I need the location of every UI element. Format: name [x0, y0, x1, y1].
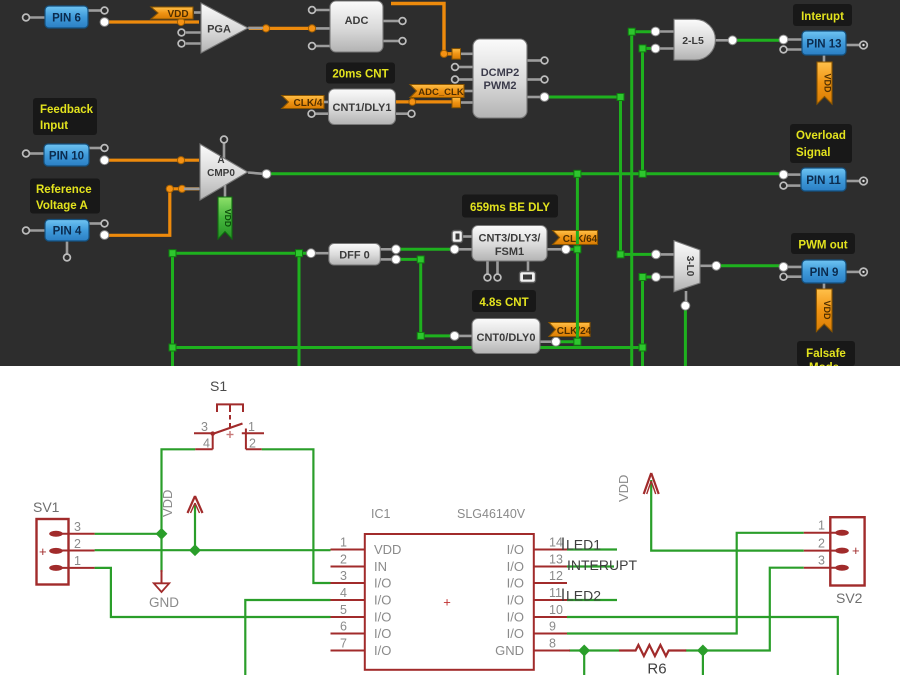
- svg-text:2: 2: [249, 437, 256, 451]
- wire orange PIN4 to CMP0 input2: [105, 185, 200, 235]
- wire bottom net to IC1 pin4: [245, 600, 330, 675]
- svg-text:1: 1: [818, 519, 825, 533]
- wire 3-L0 bottom port vertical: [684, 308, 687, 366]
- wire row y=347.5: [173, 346, 643, 349]
- counter block CNT0/DLY0: [450, 319, 560, 354]
- wire SV1 pin1 to IC1 pin5: [95, 568, 331, 617]
- svg-text:GND: GND: [495, 643, 524, 658]
- PIN 6: [23, 6, 109, 28]
- svg-text:LED2: LED2: [566, 588, 601, 604]
- svg-text:4.8s CNT: 4.8s CNT: [479, 297, 528, 309]
- svg-text:PIN 6: PIN 6: [52, 13, 81, 25]
- label Interupt: [793, 4, 852, 26]
- svg-text:20ms CNT: 20ms CNT: [332, 69, 388, 81]
- svg-text:SLG46140V: SLG46140V: [457, 507, 526, 521]
- svg-text:ADC_CLK: ADC_CLK: [418, 87, 464, 98]
- junction GND/SV1 pin3: [156, 528, 168, 540]
- op-amp PGA: [178, 3, 263, 53]
- svg-text:1: 1: [248, 420, 255, 434]
- svg-text:659ms BE DLY: 659ms BE DLY: [470, 202, 550, 214]
- wire orange PIN10 to CMP0 input1: [105, 157, 200, 164]
- svg-text:IN: IN: [374, 559, 387, 574]
- svg-text:VDD: VDD: [223, 209, 233, 227]
- svg-text:I/O: I/O: [507, 610, 524, 625]
- svg-text:SV2: SV2: [836, 590, 863, 606]
- svg-text:13: 13: [549, 553, 563, 567]
- svg-text:INTERUPT: INTERUPT: [567, 557, 637, 573]
- wire 2-L5 output to PIN 13: [734, 39, 783, 42]
- svg-text:CNT3/DLY3/: CNT3/DLY3/: [479, 233, 541, 245]
- wire CNT3 FSM1 net vertical x=577.4: [576, 174, 579, 342]
- svg-text:CMP0: CMP0: [207, 168, 235, 179]
- power flag VDD under PIN 13: [817, 62, 833, 104]
- svg-text:PWM2: PWM2: [484, 80, 517, 92]
- net label LED1: [563, 537, 601, 553]
- svg-text:6: 6: [340, 620, 347, 634]
- svg-text:+: +: [443, 595, 451, 610]
- svg-text:1: 1: [340, 536, 347, 550]
- svg-text:+: +: [39, 544, 47, 559]
- counter block CNT1/DLY1: [308, 89, 415, 125]
- svg-text:I/O: I/O: [374, 576, 391, 591]
- svg-text:PGA: PGA: [207, 24, 231, 36]
- svg-text:11: 11: [549, 586, 562, 600]
- svg-text:S1: S1: [210, 378, 227, 394]
- svg-text:I/O: I/O: [507, 626, 524, 641]
- wire VDD net SV1 pin2 to IC1 pin1: [95, 505, 331, 550]
- switch S1: [194, 404, 264, 449]
- ground symbol GND: [149, 570, 179, 610]
- svg-text:LED1: LED1: [566, 537, 601, 553]
- label PWM out: [791, 233, 855, 254]
- logic gate 2-L5: [651, 19, 737, 60]
- wire orange ADC clock elbow to DCMP2: [391, 4, 453, 58]
- svg-text:9: 9: [549, 620, 556, 634]
- svg-text:DFF 0: DFF 0: [339, 250, 370, 262]
- svg-text:Mode: Mode: [809, 362, 839, 374]
- svg-text:2: 2: [74, 537, 81, 551]
- svg-text:CNT0/DLY0: CNT0/DLY0: [477, 332, 536, 344]
- wire CNT3 output to junction: [568, 248, 577, 251]
- svg-text:DCMP2: DCMP2: [481, 67, 520, 79]
- svg-text:VDD: VDD: [822, 300, 832, 320]
- svg-text:PIN 10: PIN 10: [49, 151, 84, 163]
- power flag VDD under CMP0 (green): [218, 185, 233, 239]
- svg-text:FSM1: FSM1: [495, 246, 524, 258]
- comparator block DCMP2 PWM2: [452, 39, 549, 118]
- svg-text:+: +: [852, 543, 860, 558]
- svg-text:I/O: I/O: [507, 559, 524, 574]
- S1 pin numbers: [201, 420, 256, 451]
- svg-text:VDD: VDD: [823, 73, 833, 93]
- wire DCMP2 PWM2 output to 3-L0 input1: [548, 97, 654, 254]
- svg-text:14: 14: [549, 536, 563, 550]
- svg-text:Overload: Overload: [796, 130, 846, 142]
- svg-text:SV1: SV1: [33, 499, 60, 515]
- counter block CNT3/DLY3/FSM1: [450, 226, 570, 283]
- net label VDD (flag at PGA): [151, 7, 193, 20]
- svg-text:GND: GND: [149, 595, 179, 610]
- junction GND row left: [578, 645, 590, 657]
- ADC converter block: [308, 1, 406, 52]
- svg-text:Voltage A: Voltage A: [36, 200, 88, 212]
- svg-text:I/O: I/O: [507, 576, 524, 591]
- svg-text:VDD: VDD: [160, 490, 175, 517]
- svg-text:PIN 13: PIN 13: [806, 39, 841, 51]
- svg-text:I/O: I/O: [374, 626, 391, 641]
- wire S1 pin2 to IC1 pin3: [262, 449, 331, 583]
- net label CLK/64: [553, 231, 598, 246]
- svg-text:PWM out: PWM out: [798, 240, 847, 252]
- power symbol VDD (left): [160, 490, 203, 517]
- net label CLK/4: [282, 96, 324, 110]
- svg-text:CLK/24: CLK/24: [557, 326, 592, 337]
- wire SV1 pin3 to GND net: [95, 533, 162, 535]
- svg-text:5: 5: [340, 603, 347, 617]
- svg-text:10: 10: [549, 603, 563, 617]
- svg-text:A: A: [217, 155, 224, 166]
- pin block PIN 9: [779, 260, 867, 290]
- label Falsafe Mode: [797, 341, 855, 374]
- wire vertical x=299 to bottom: [298, 253, 301, 366]
- svg-text:3: 3: [74, 520, 81, 534]
- wire orange CNT1 output / ADC_CLK net: [396, 96, 452, 105]
- wire net INTERUPT (IC1 pin13): [567, 565, 614, 567]
- wire 3-L0 output to PIN 9: [719, 264, 783, 267]
- wire CNT0 output to junction: [558, 340, 577, 343]
- net label CLK/24: [549, 323, 592, 338]
- net label ADC_CLK: [410, 85, 464, 99]
- svg-text:VDD: VDD: [374, 542, 401, 557]
- wire R6 to SV2 pin3: [686, 568, 804, 675]
- wire VDD net to SV2 pin2: [651, 480, 804, 551]
- svg-text:3: 3: [201, 420, 208, 434]
- junction dots (green squares): [169, 28, 646, 351]
- svg-text:12: 12: [549, 569, 563, 583]
- svg-text:CNT1/DLY1: CNT1/DLY1: [333, 102, 392, 114]
- svg-text:IC1: IC1: [371, 507, 391, 521]
- svg-text:Reference: Reference: [36, 184, 92, 196]
- wire DFF0 out2 to CNT0 input: [399, 259, 452, 336]
- svg-text:Input: Input: [40, 120, 68, 132]
- connector SV1: [33, 499, 95, 585]
- mux 3-L0: [652, 241, 721, 311]
- svg-text:VDD: VDD: [616, 475, 631, 502]
- svg-text:1: 1: [74, 554, 81, 568]
- svg-text:4: 4: [203, 437, 210, 451]
- wire 3-L0 input2 vertical x=642.5 to bottom: [643, 277, 655, 366]
- net label INTERUPT: [567, 557, 637, 573]
- junction VDD symbol on pin2 row: [189, 544, 201, 556]
- svg-text:4: 4: [340, 586, 347, 600]
- svg-text:ADC: ADC: [345, 15, 369, 27]
- wire vertical x=172.5 to bottom: [171, 253, 174, 366]
- svg-text:I/O: I/O: [507, 542, 524, 557]
- connector SV2: [804, 517, 865, 606]
- wire orange PIN6 to PGA: [105, 18, 200, 25]
- IC U1: IC1 SLG46140V: [331, 507, 571, 670]
- label 20ms CNT: [326, 63, 395, 84]
- svg-text:I/O: I/O: [507, 593, 524, 608]
- svg-text:2: 2: [340, 553, 347, 567]
- resistor R6: [619, 645, 686, 675]
- pin block PIN 13: [779, 31, 867, 64]
- svg-text:I/O: I/O: [374, 610, 391, 625]
- svg-text:Falsafe: Falsafe: [806, 348, 846, 360]
- svg-text:I/O: I/O: [374, 593, 391, 608]
- wire vertical net x=631.7 (2-L5 input1): [632, 32, 653, 366]
- power symbol VDD (right): [616, 473, 659, 502]
- power flag VDD under PIN 9: [816, 289, 832, 332]
- label 4.8s CNT: [472, 290, 536, 312]
- svg-text:CLK/4: CLK/4: [294, 98, 323, 109]
- wire DFF0 input row: [173, 252, 310, 255]
- label 659ms BE DLY: [462, 195, 558, 218]
- svg-text:2-L5: 2-L5: [682, 35, 704, 47]
- GreenPAK designer dark canvas: [0, 0, 900, 366]
- wire vertical net x=642.5 (2-L5 input2 from row174): [643, 48, 654, 173]
- svg-text:7: 7: [340, 637, 347, 651]
- svg-text:CLK/64: CLK/64: [563, 234, 598, 245]
- wire CMP0 output net (row y=174): [268, 172, 783, 175]
- junction GND row right: [697, 645, 709, 657]
- wire IC1 pin9 to SV2 pin1: [567, 533, 804, 634]
- comparator CMP0: [184, 136, 271, 200]
- wire CNT3 FSM1 net vertical over flags: [576, 231, 579, 337]
- svg-text:2: 2: [818, 537, 825, 551]
- svg-text:R6: R6: [647, 661, 666, 675]
- svg-text:PIN 11: PIN 11: [806, 175, 841, 187]
- svg-text:Signal: Signal: [796, 147, 831, 159]
- wire net LED1 (IC1 pin14): [567, 548, 617, 550]
- pin block PIN 10: [23, 144, 109, 166]
- label Feedback Input: [33, 98, 97, 135]
- svg-text:Interupt: Interupt: [801, 11, 844, 23]
- net label LED2: [563, 588, 601, 604]
- svg-text:3: 3: [340, 569, 347, 583]
- svg-text:I/O: I/O: [374, 643, 391, 658]
- wire orange PGA to ADC: [249, 25, 312, 32]
- svg-text:Feedback: Feedback: [40, 104, 94, 116]
- svg-text:3-L0: 3-L0: [684, 256, 695, 277]
- wire IC1 pin10 to bottom right: [567, 617, 838, 675]
- wire GND net IC1 pin8 to R6: [569, 651, 619, 675]
- label S1: [210, 378, 227, 394]
- wire DFF0 out1 to CNT3 input: [399, 248, 452, 251]
- svg-text:PIN 9: PIN 9: [810, 267, 839, 279]
- wire S1 pin4 to GND net: [162, 449, 196, 572]
- svg-text:VDD: VDD: [167, 9, 188, 20]
- flip-flop DFF 0: [307, 244, 401, 266]
- svg-text:PIN 4: PIN 4: [53, 226, 82, 238]
- svg-text:8: 8: [549, 637, 556, 651]
- label Reference Voltage A: [30, 179, 100, 214]
- wire net LED2 (IC1 pin11): [567, 599, 617, 601]
- pin block PIN 4: [23, 220, 109, 261]
- label Overload Signal: [790, 124, 852, 163]
- pin block PIN 11: [779, 168, 867, 191]
- svg-text:3: 3: [818, 554, 825, 568]
